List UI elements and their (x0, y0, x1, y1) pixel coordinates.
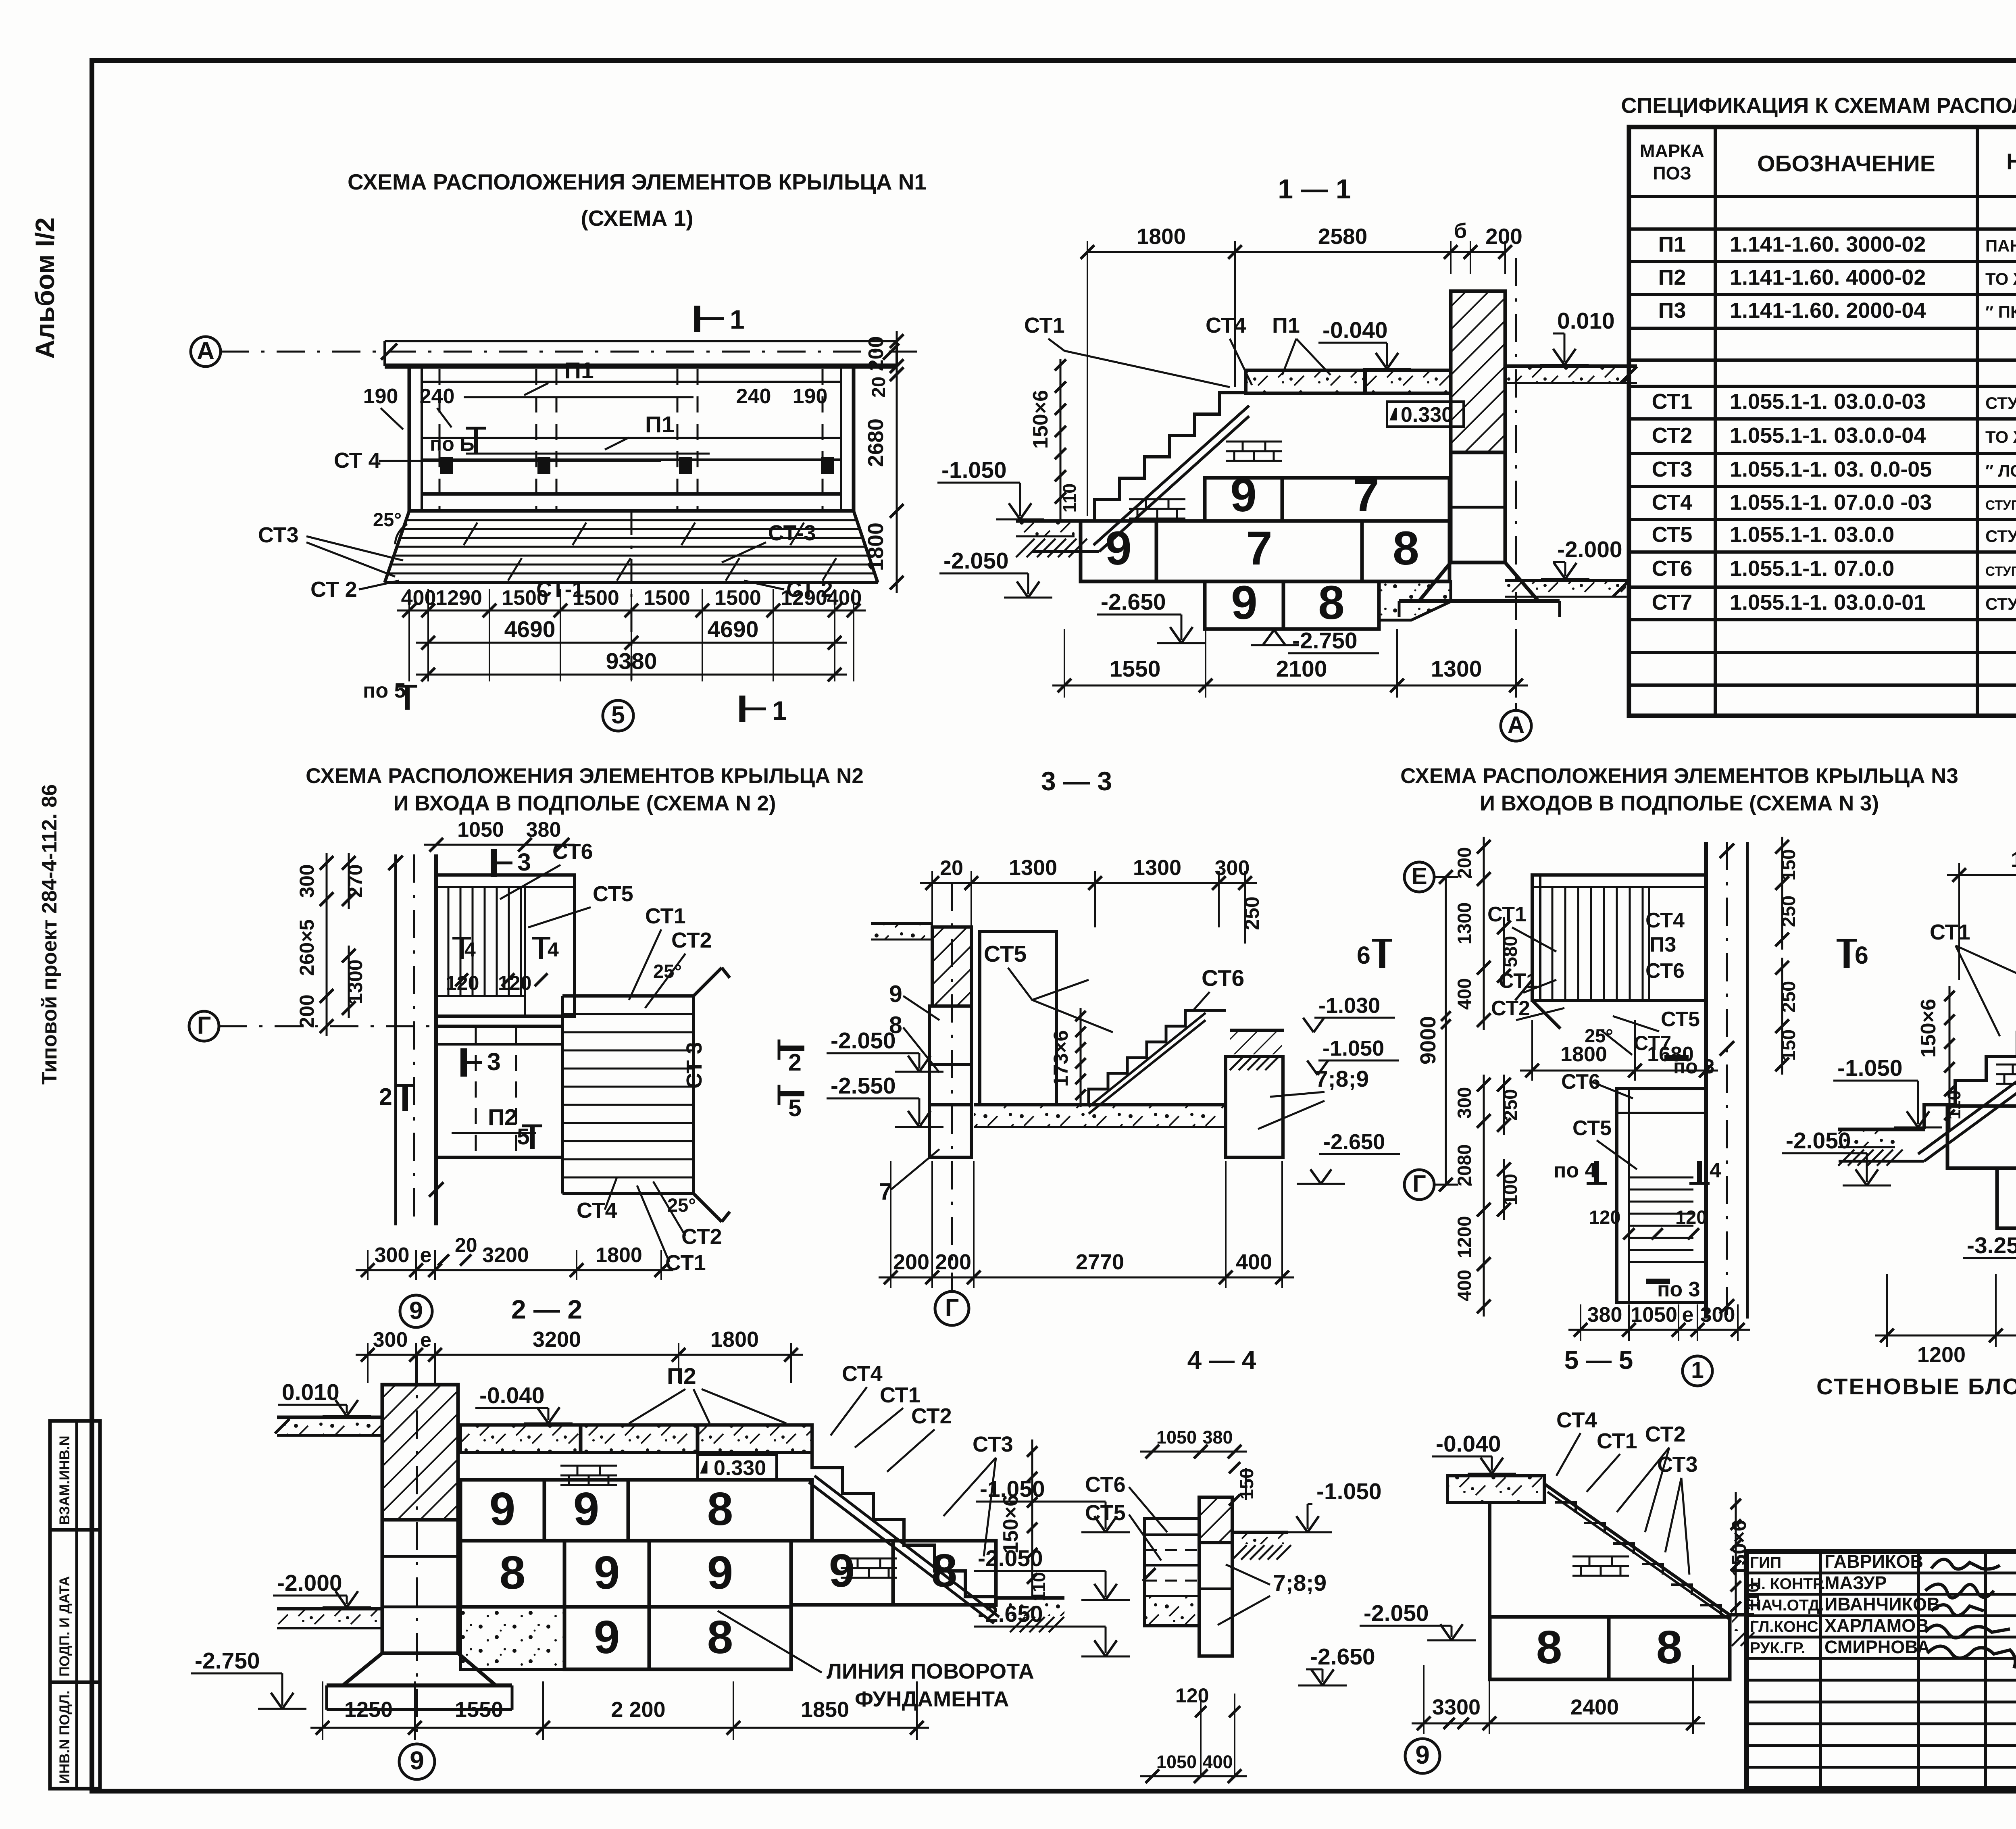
svg-text:110: 110 (1743, 1583, 1762, 1610)
svg-text:по 4: по 4 (1554, 1159, 1597, 1182)
svg-text:260×5: 260×5 (296, 919, 318, 976)
svg-text:СТ2: СТ2 (671, 928, 712, 952)
s22 ground right (996, 1596, 1064, 1600)
svg-text:1.055.1-1. 03.0.0-04: 1.055.1-1. 03.0.0-04 (1730, 423, 1926, 448)
s11 brick symbols (1226, 441, 1282, 443)
svg-text:-1.050: -1.050 (1316, 1479, 1382, 1504)
svg-text:СТ6: СТ6 (552, 840, 593, 864)
svg-text:ГЛ.КОНС.: ГЛ.КОНС. (1750, 1618, 1823, 1635)
schema1 porch body (409, 366, 854, 511)
svg-text:-2.750: -2.750 (1292, 628, 1358, 654)
svg-text:СТ6: СТ6 (1561, 1070, 1600, 1094)
s22 footing (343, 1653, 496, 1685)
svg-text:СТ 4: СТ 4 (334, 448, 381, 473)
s33 pit wall (980, 931, 1056, 1105)
s11 blocks row1 (1205, 478, 1282, 521)
svg-text:-0.040: -0.040 (479, 1383, 545, 1408)
svg-text:б: б (1454, 219, 1467, 243)
svg-text:0.330: 0.330 (1401, 403, 1453, 427)
svg-text:190: 190 (793, 385, 828, 408)
svg-text:2680: 2680 (864, 419, 888, 467)
svg-text:СТ1: СТ1 (880, 1383, 921, 1407)
svg-text:П1: П1 (1658, 232, 1686, 256)
svg-text:2080: 2080 (1454, 1144, 1475, 1187)
schema2 wall band (394, 854, 397, 1225)
spec table grid (1629, 127, 2016, 716)
s11 ground left (1016, 519, 1096, 523)
svg-text:СТ4: СТ4 (1556, 1408, 1597, 1432)
axis G circle schema2 (189, 1011, 219, 1041)
svg-text:4: 4 (464, 938, 476, 961)
svg-text:ПОДП. И ДАТА: ПОДП. И ДАТА (57, 1576, 73, 1677)
svg-text:200: 200 (296, 994, 318, 1028)
s11 blocks row2 (1081, 521, 1156, 581)
svg-text:СТ2: СТ2 (1645, 1422, 1686, 1446)
schema3 lower entrance (1617, 1089, 1706, 1302)
svg-text:9: 9 (1415, 1740, 1430, 1769)
svg-text:СТ5: СТ5 (1661, 1008, 1700, 1031)
svg-text:8: 8 (500, 1546, 526, 1599)
svg-text:1.141-1.60. 4000-02: 1.141-1.60. 4000-02 (1730, 265, 1926, 290)
svg-text:1800: 1800 (864, 523, 888, 571)
s22 top dims (367, 1343, 369, 1383)
svg-text:СТ2: СТ2 (1652, 423, 1693, 448)
schema1 section flag 1 bottom (739, 696, 746, 722)
s33 bottom dims (890, 1161, 891, 1288)
svg-text:ТО ЖЕ ЛС18: ТО ЖЕ ЛС18 (1985, 427, 2016, 446)
svg-text:СТ2: СТ2 (911, 1404, 952, 1428)
s22 wall hatched (382, 1385, 458, 1520)
svg-text:П2: П2 (488, 1104, 517, 1130)
svg-text:СТ6: СТ6 (1645, 959, 1685, 983)
svg-text:-1.050: -1.050 (1322, 1036, 1384, 1060)
svg-text:3200: 3200 (533, 1327, 581, 1352)
svg-text:1800: 1800 (710, 1327, 759, 1352)
svg-text:П3: П3 (1658, 298, 1686, 323)
svg-text:1300: 1300 (1133, 856, 1181, 880)
svg-text:СТ3: СТ3 (1657, 1452, 1698, 1477)
svg-text:1500: 1500 (714, 586, 761, 610)
svg-text:250: 250 (1778, 896, 1799, 927)
svg-text:300: 300 (1700, 1303, 1735, 1327)
svg-text:2: 2 (788, 1049, 802, 1076)
svg-text:СТУПЕНЬ ВЕРХНЯЯ ФРИЗОВ ЛСКН: СТУПЕНЬ ВЕРХНЯЯ ФРИЗОВ ЛСКН (1985, 564, 2016, 579)
svg-text:8: 8 (1656, 1621, 1683, 1673)
s33 right wall column (1226, 1056, 1283, 1157)
svg-text:2770: 2770 (1076, 1250, 1124, 1274)
svg-text:1.055.1-1. 03. 0.0-05: 1.055.1-1. 03. 0.0-05 (1730, 457, 1932, 481)
svg-text:СТ1: СТ1 (665, 1251, 706, 1275)
svg-text:2580: 2580 (1318, 224, 1367, 249)
s66 top dims (1958, 863, 1960, 980)
svg-text:120: 120 (1175, 1684, 1209, 1707)
svg-text:4690: 4690 (504, 617, 556, 642)
schema1 bottom circle 5 (603, 700, 633, 731)
s11 wall hatched (1451, 291, 1505, 452)
svg-text:250: 250 (1500, 1089, 1521, 1121)
svg-text:ПАНЕЛЬ ПК 30.12-8т: ПАНЕЛЬ ПК 30.12-8т (1985, 236, 2016, 255)
svg-text:0.010: 0.010 (282, 1379, 339, 1405)
axis E circle (1404, 862, 1434, 892)
s22 0.330 box (698, 1455, 777, 1480)
svg-text:СТ3: СТ3 (1652, 457, 1693, 481)
svg-text:СТ5: СТ5 (984, 941, 1027, 967)
s22 landing slab P2 (460, 1425, 812, 1452)
s22 left floor strip 0.010 (277, 1417, 382, 1435)
s33 left wall (932, 927, 971, 1006)
s44 right ground (1232, 1532, 1288, 1544)
svg-text:А: А (1508, 712, 1525, 738)
svg-text:-2.050: -2.050 (1364, 1600, 1429, 1626)
svg-text:СТ6: СТ6 (1202, 965, 1244, 991)
svg-text:2 — 2: 2 — 2 (511, 1294, 582, 1324)
svg-text:7: 7 (1353, 469, 1379, 522)
s11 top dims (1087, 241, 1088, 274)
svg-text:8: 8 (931, 1544, 958, 1597)
schema1 section flag 1 top (694, 306, 700, 332)
svg-text:9: 9 (594, 1546, 620, 1599)
svg-text:3: 3 (487, 1048, 501, 1075)
svg-text:СТ4: СТ4 (842, 1362, 883, 1386)
svg-text:1.055.1-1. 03.0.0-03: 1.055.1-1. 03.0.0-03 (1730, 390, 1926, 414)
svg-text:СТ 2: СТ 2 (310, 577, 357, 602)
schema1 bearing pads (440, 457, 453, 474)
svg-text:200: 200 (893, 1250, 929, 1274)
svg-text:1800: 1800 (1137, 224, 1186, 249)
svg-text:9: 9 (707, 1546, 733, 1599)
s55 brick symbol (1572, 1556, 1629, 1558)
svg-text:25°: 25° (373, 509, 402, 530)
schema3 9000 vdim (1445, 877, 1447, 1185)
svg-text:200: 200 (935, 1250, 971, 1274)
svg-text:2 200: 2 200 (611, 1698, 665, 1722)
svg-text:СТУПЕНЬ ОСНОВНАЯ ЛС11: СТУПЕНЬ ОСНОВНАЯ ЛС11 (1985, 527, 2016, 546)
s33 top dims (931, 871, 933, 927)
svg-text:СТ1: СТ1 (1652, 390, 1693, 414)
svg-text:И ВХОДА В ПОДПОЛЬЕ (СХЕМА N: И ВХОДА В ПОДПОЛЬЕ (СХЕМА N 2) (394, 792, 776, 815)
svg-text:150: 150 (1778, 1029, 1799, 1061)
s33 left wall blocks (929, 1006, 971, 1064)
svg-text:9: 9 (889, 981, 902, 1007)
svg-text:3: 3 (517, 848, 531, 876)
svg-text:3 — 3: 3 — 3 (1041, 766, 1112, 796)
svg-text:9: 9 (489, 1483, 516, 1535)
s11 footing (1419, 562, 1538, 601)
svg-text:9: 9 (1105, 522, 1132, 575)
s44 column below (1199, 1543, 1232, 1656)
svg-text:СТЕНОВЫЕ БЛОКИ ПОЗ. 7 ; 8: СТЕНОВЫЕ БЛОКИ ПОЗ. 7 ; 8 ; 9 УЧТЕНЫ НА … (1816, 1374, 2016, 1400)
svg-text:300: 300 (1454, 1087, 1475, 1119)
svg-text:СТ5: СТ5 (1572, 1117, 1612, 1140)
svg-text:5 — 5: 5 — 5 (1564, 1346, 1633, 1375)
svg-text:ВЗАМ.ИНВ.N: ВЗАМ.ИНВ.N (57, 1435, 73, 1525)
s55 right ground (1730, 1613, 1754, 1617)
schema2 stair right (562, 994, 694, 998)
schema3 right vdims (1781, 837, 1783, 893)
svg-text:400: 400 (827, 586, 862, 610)
svg-text:СМИРНОВА: СМИРНОВА (1824, 1637, 1930, 1657)
svg-text:1500: 1500 (502, 586, 548, 610)
svg-text:9: 9 (829, 1544, 855, 1597)
s66 stair steps (1924, 984, 2016, 1129)
s55 stringer (1547, 1492, 1731, 1620)
svg-text:190: 190 (363, 385, 398, 408)
svg-text:по 5: по 5 (363, 679, 406, 702)
svg-text:1.055.1-1. 07.0.0 -03: 1.055.1-1. 07.0.0 -03 (1730, 490, 1932, 515)
svg-text:СТ1: СТ1 (645, 904, 686, 928)
svg-text:6: 6 (1357, 942, 1370, 969)
svg-text:250: 250 (1778, 981, 1799, 1012)
schema2 lower porch (436, 1026, 562, 1157)
svg-text:СХЕМА РАСПОЛОЖЕНИЯ ЭЛЕМЕНТОВ К: СХЕМА РАСПОЛОЖЕНИЯ ЭЛЕМЕНТОВ КРЫЛЬЦА N2 (306, 764, 864, 788)
svg-text:СТУПЕНЬ ВЕРХНЯЯ ФРИЗ ЛСК15: СТУПЕНЬ ВЕРХНЯЯ ФРИЗ ЛСК15 (1985, 498, 2016, 512)
schema1 right vdims (896, 331, 898, 376)
svg-text:1300: 1300 (1454, 902, 1475, 945)
schema3 upper wedge (1532, 1000, 1560, 1029)
svg-text:П1: П1 (645, 412, 675, 437)
svg-text:5: 5 (611, 701, 625, 729)
svg-text:-2.550: -2.550 (831, 1073, 896, 1099)
svg-text:300: 300 (375, 1244, 410, 1267)
svg-text:7;8;9: 7;8;9 (1315, 1066, 1369, 1092)
svg-text:1250: 1250 (344, 1698, 393, 1722)
schema1 steps trapezoid (385, 511, 409, 583)
s22 left floor strip -2.000 (277, 1609, 382, 1628)
svg-text:-2.650: -2.650 (1101, 589, 1166, 615)
svg-text:ИНВ.N ПОДЛ.: ИНВ.N ПОДЛ. (57, 1690, 73, 1784)
schema2 wedges (694, 968, 722, 996)
svg-text:1050: 1050 (1156, 1752, 1197, 1772)
svg-text:200: 200 (864, 336, 888, 371)
svg-text:5: 5 (517, 1124, 530, 1150)
schema3 left vdims (1483, 837, 1485, 889)
svg-text:е: е (420, 1329, 431, 1351)
s11 wall below (1451, 452, 1505, 562)
svg-text:ГАВРИКОВ: ГАВРИКОВ (1824, 1551, 1923, 1572)
svg-text:ЛИНИЯ ПОВОРОТА: ЛИНИЯ ПОВОРОТА (827, 1659, 1034, 1683)
svg-text:20: 20 (940, 856, 963, 880)
s22 tick col (1031, 1439, 1033, 1598)
svg-text:″ ПК 24 15-8т: ″ ПК 24 15-8т (1985, 302, 2016, 321)
svg-text:4: 4 (1710, 1159, 1721, 1182)
s33 right ground (1230, 1030, 1282, 1054)
svg-text:Г: Г (197, 1012, 211, 1039)
svg-text:9: 9 (1230, 469, 1257, 522)
svg-text:380: 380 (1587, 1303, 1622, 1327)
svg-text:СТ4: СТ4 (1645, 909, 1685, 932)
main stamp (1747, 1552, 2016, 1789)
svg-text:8: 8 (1318, 576, 1345, 629)
svg-text:1290: 1290 (781, 586, 827, 610)
schema1 bottom dims (408, 589, 410, 681)
svg-text:200: 200 (1454, 847, 1475, 879)
s44 hatched column (1199, 1497, 1232, 1543)
svg-text:1850: 1850 (801, 1698, 849, 1722)
schema2 upper entrance (436, 875, 575, 1016)
schema1 top wall strip (385, 340, 897, 342)
svg-text:7: 7 (1246, 522, 1272, 575)
s55 top circle 1 (1683, 1356, 1712, 1386)
svg-text:110: 110 (1944, 1090, 1964, 1120)
s22 top circle 9 (400, 1295, 432, 1327)
svg-text:3300: 3300 (1432, 1695, 1481, 1719)
svg-text:150×6: 150×6 (1917, 999, 1940, 1058)
svg-text:200: 200 (1485, 224, 1522, 249)
s22 bottom dims (322, 1681, 323, 1740)
svg-text:1: 1 (772, 696, 787, 725)
svg-text:Г: Г (945, 1294, 959, 1321)
svg-text:4: 4 (548, 938, 559, 961)
svg-text:СТ3: СТ3 (973, 1432, 1013, 1456)
svg-text:СТУПЕНЬ ОСНОВНАЯ ЛС12: СТУПЕНЬ ОСНОВНАЯ ЛС12 (1985, 594, 2016, 613)
svg-text:1.055.1-1. 03.0.0-01: 1.055.1-1. 03.0.0-01 (1730, 590, 1926, 615)
axis G2 circle (1404, 1170, 1434, 1200)
svg-text:3200: 3200 (482, 1244, 529, 1267)
svg-text:РУК.ГР.: РУК.ГР. (1750, 1639, 1806, 1657)
svg-text:Альбом I/2: Альбом I/2 (30, 217, 60, 359)
svg-text:1200: 1200 (1454, 1216, 1475, 1258)
svg-text:9: 9 (410, 1746, 424, 1775)
svg-text:9: 9 (1231, 576, 1258, 629)
svg-text:240: 240 (420, 385, 455, 408)
s66 ground left (1838, 1128, 1925, 1131)
s11 right floor strip 0.010 (1505, 366, 1634, 383)
svg-text:400: 400 (1454, 978, 1475, 1010)
svg-text:СТ4: СТ4 (1652, 490, 1693, 515)
svg-text:1800: 1800 (2011, 848, 2016, 872)
svg-text:1550: 1550 (455, 1698, 503, 1722)
schema3 6 flags (1379, 939, 1385, 968)
s11 stair stringer (1093, 406, 1249, 545)
svg-text:-2.650: -2.650 (978, 1601, 1043, 1627)
svg-text:110: 110 (1059, 483, 1080, 513)
svg-text:-2.050: -2.050 (943, 548, 1009, 574)
s33 stair (1089, 1010, 1205, 1105)
s22 stringer (814, 1476, 999, 1617)
svg-text:1800: 1800 (1560, 1043, 1607, 1066)
s22 blocks row2 (460, 1541, 564, 1607)
schema2 left vdims (326, 853, 328, 909)
schema3 wall band (1704, 842, 1708, 1319)
svg-text:-1.030: -1.030 (1318, 994, 1380, 1018)
svg-text:120: 120 (446, 972, 479, 994)
s44 left stair edge-on (1145, 1519, 1199, 1626)
svg-text:6: 6 (1855, 942, 1868, 969)
svg-text:1050: 1050 (1156, 1427, 1197, 1448)
svg-text:-1.050: -1.050 (941, 457, 1007, 483)
svg-text:П3: П3 (1649, 933, 1676, 956)
svg-text:9000: 9000 (1416, 1016, 1440, 1064)
s11 landing slab P1 (1246, 370, 1451, 393)
svg-text:1.055.1-1. 03.0.0: 1.055.1-1. 03.0.0 (1730, 523, 1894, 547)
s33 flags (778, 1046, 804, 1051)
svg-text:1290: 1290 (435, 586, 482, 610)
svg-text:1.141-1.60. 2000-04: 1.141-1.60. 2000-04 (1730, 298, 1926, 323)
svg-text:380: 380 (1202, 1427, 1233, 1448)
svg-text:СТ 3: СТ 3 (682, 1042, 706, 1089)
svg-text:2400: 2400 (1570, 1695, 1619, 1719)
svg-text:270: 270 (344, 864, 367, 898)
schema3 bottom dims (1580, 1304, 1581, 1341)
svg-text:СХЕМА РАСПОЛОЖЕНИЯ ЭЛЕМЕНТОВ К: СХЕМА РАСПОЛОЖЕНИЯ ЭЛЕМЕНТОВ КРЫЛЬЦА N1 (348, 169, 927, 194)
svg-text:е: е (1682, 1303, 1694, 1327)
svg-text:ТО ЖЕ ПК 30.10-8т: ТО ЖЕ ПК 30.10-8т (1985, 269, 2016, 288)
svg-text:-2.050: -2.050 (831, 1028, 896, 1054)
svg-text:400: 400 (1236, 1250, 1272, 1274)
svg-text:-2.050: -2.050 (978, 1546, 1043, 1571)
svg-text:Е: Е (1411, 863, 1427, 890)
svg-text:ФУНДАМЕНТА: ФУНДАМЕНТА (855, 1687, 1009, 1711)
svg-text:2: 2 (379, 1083, 392, 1110)
svg-text:9: 9 (409, 1297, 423, 1324)
signatures (1931, 1559, 2000, 1569)
schema3 mid dims (1531, 1020, 1533, 1081)
svg-text:-0.040: -0.040 (1436, 1431, 1501, 1457)
svg-text:СТ2: СТ2 (1491, 997, 1530, 1020)
svg-text:СТ5: СТ5 (593, 882, 633, 906)
s11 bottom dims (1064, 629, 1065, 698)
svg-text:300: 300 (373, 1328, 408, 1352)
svg-text:400: 400 (1202, 1752, 1233, 1772)
svg-text:П1: П1 (1272, 313, 1300, 337)
svg-text:4690: 4690 (708, 617, 759, 642)
svg-text:-2.000: -2.000 (1557, 537, 1622, 562)
svg-text:И ВХОДОВ В ПОДПОЛЬЕ (СХЕМА N: И ВХОДОВ В ПОДПОЛЬЕ (СХЕМА N 3) (1480, 792, 1879, 815)
s22 stair steps down-right (812, 1442, 996, 1597)
s55 left slab (1447, 1476, 1544, 1502)
svg-text:1300: 1300 (1431, 656, 1482, 682)
s33 tick col (1080, 1008, 1082, 1107)
s55 bottom circle 9 (1405, 1739, 1440, 1773)
s55 bottom dims (1423, 1665, 1425, 1734)
svg-text:1300: 1300 (344, 959, 367, 1004)
svg-text:СПЕЦИФИКАЦИЯ К СХЕМАМ РАСПО: СПЕЦИФИКАЦИЯ К СХЕМАМ РАСПОЛОЖЕНИЯ ЭЛЕМЕ… (1621, 94, 2016, 118)
svg-text:250: 250 (1241, 896, 1263, 930)
svg-text:2100: 2100 (1276, 656, 1327, 682)
svg-text:СТ4: СТ4 (577, 1198, 617, 1223)
svg-text:-2.650: -2.650 (1310, 1644, 1375, 1670)
svg-text:-3.250: -3.250 (1967, 1233, 2016, 1258)
svg-text:ГИП: ГИП (1750, 1554, 1781, 1571)
s22 blocks row1 (460, 1480, 544, 1541)
svg-text:1050: 1050 (1631, 1303, 1677, 1327)
svg-text:ПОЗ: ПОЗ (1653, 163, 1691, 183)
svg-text:150×6: 150×6 (1029, 390, 1052, 449)
svg-text:8: 8 (707, 1483, 733, 1535)
schema2 2 flag (402, 1085, 408, 1111)
s11 stair steps (1095, 393, 1245, 521)
svg-text:СТ-3: СТ-3 (768, 521, 816, 545)
axis A circle (191, 337, 221, 367)
svg-text:″ ЛС22: ″ ЛС22 (1985, 461, 2016, 480)
svg-text:-1.050: -1.050 (1837, 1055, 1903, 1081)
svg-text:-2.750: -2.750 (195, 1648, 260, 1674)
svg-text:0.330: 0.330 (714, 1456, 766, 1480)
svg-text:1: 1 (1691, 1357, 1704, 1383)
svg-text:580: 580 (1500, 936, 1521, 967)
svg-text:ХАРЛАМОВ: ХАРЛАМОВ (1824, 1615, 1929, 1636)
svg-text:СТ1: СТ1 (1024, 313, 1065, 337)
svg-text:СХЕМА РАСПОЛОЖЕНИЯ ЭЛЕМЕНТОВ К: СХЕМА РАСПОЛОЖЕНИЯ ЭЛЕМЕНТОВ КРЫЛЬЦА N3 (1400, 764, 1958, 788)
s11 left tick column (1060, 359, 1062, 521)
svg-text:0.010: 0.010 (1557, 308, 1615, 334)
svg-text:1800: 1800 (596, 1244, 642, 1267)
svg-text:7;8;9: 7;8;9 (1273, 1570, 1327, 1596)
svg-text:Типовой проект 284-4-112. 86: Типовой проект 284-4-112. 86 (38, 784, 61, 1085)
svg-text:-2.050: -2.050 (1786, 1128, 1851, 1154)
s55 body (1488, 1502, 1491, 1617)
svg-text:СТУПЕНЬ ОСНОВНАЯ ЛС15: СТУПЕНЬ ОСНОВНАЯ ЛС15 (1985, 394, 2016, 412)
